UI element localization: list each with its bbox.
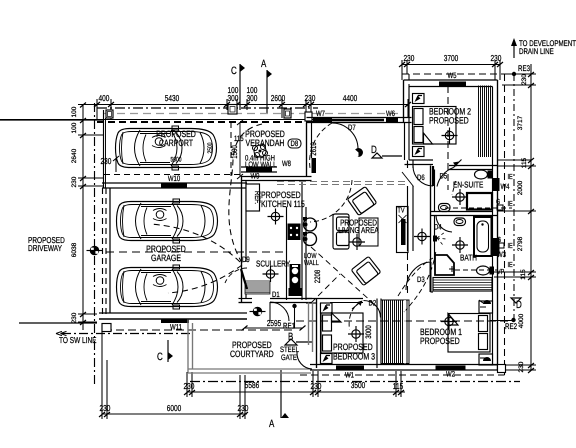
bed3 east wall [376,299,378,369]
svg-text:100: 100 [71,122,78,133]
courtyard south wall [188,368,311,370]
svg-text:4400: 4400 [343,93,358,103]
toilet ensuite [475,170,488,179]
svg-text:DRAIN LINE: DRAIN LINE [519,47,554,56]
dim line bottom y414 [102,413,247,415]
svg-text:EN-SUITE: EN-SUITE [453,180,484,190]
wall light bed3 bottom [321,354,333,364]
corner post SE [498,365,506,373]
sw line arrow [56,331,67,335]
svg-text:D9: D9 [242,255,250,264]
svg-text:W8: W8 [282,159,291,168]
svg-text:115: 115 [234,134,244,143]
bath west wall [430,216,432,293]
svg-text:D1: D1 [272,290,280,299]
door D7 threshold [332,119,384,121]
svg-text:2595: 2595 [267,318,282,328]
entry arc dashed [310,123,332,168]
bedroom1 south wall with window W2 [436,366,466,370]
armchair top [347,186,376,215]
ceiling light hallway [414,229,430,245]
west wall inner face [109,188,111,313]
window W10 [161,184,187,189]
dashed 1500 dim verandah [239,122,241,176]
roof hip dashed living [311,247,373,303]
dim line right vertical [530,64,532,370]
door D7 swing [332,123,358,149]
svg-text:230: 230 [311,381,322,391]
svg-text:115: 115 [521,157,528,168]
en-suite north wall [449,165,498,167]
opening diagonal living/hall [402,172,414,187]
ceiling light bed1 [441,314,457,330]
ensuite west wall [430,166,432,216]
svg-text:3000: 3000 [364,325,373,339]
cupboard hatch bed3/bed1 [381,300,410,364]
svg-text:230: 230 [518,361,525,372]
svg-text:DRIVEWAY: DRIVEWAY [28,243,62,253]
car garage 2 [117,265,218,309]
car path dashed lower [168,265,242,293]
boundary line top-left horizontal [0,119,104,121]
dim line bottom y392 [187,391,405,393]
carport/garage wall [102,182,247,184]
svg-text:W11: W11 [170,323,182,332]
roof dashed bedroom2 left [408,74,410,117]
svg-text:5430: 5430 [165,93,180,103]
ceiling light bath [452,237,468,253]
svg-text:SCULLERY: SCULLERY [256,259,290,269]
sewer dashed courtyard/garage [104,329,294,331]
kitchen counter [286,207,288,300]
coffee table living [359,218,378,246]
svg-text:W3: W3 [497,250,506,259]
svg-text:D5: D5 [440,172,448,181]
window W1 [336,366,364,370]
svg-text:PROPOSED: PROPOSED [333,342,373,352]
svg-text:2610: 2610 [309,142,318,156]
svg-text:TO SW LINE: TO SW LINE [59,335,97,345]
car carport [116,126,217,170]
column [106,110,113,118]
car path dashed upper [229,124,262,263]
svg-text:GARAGE: GARAGE [151,253,181,263]
svg-text:RE2: RE2 [505,322,517,331]
svg-text:A: A [269,418,275,430]
sink bowls [304,218,317,231]
stove [288,224,301,241]
svg-text:3717: 3717 [517,115,524,130]
sewer line RE2 to house [490,320,513,322]
svg-text:W1: W1 [345,371,354,380]
svg-text:230: 230 [100,403,111,413]
west wall upper [306,123,308,177]
column [284,109,291,118]
ceiling light bed2 [442,128,458,144]
svg-text:C: C [231,65,237,77]
basin bath [454,218,466,226]
svg-text:W4: W4 [501,182,510,191]
corner block [102,324,111,332]
svg-text:A: A [261,58,267,70]
svg-text:RE3: RE3 [518,64,530,73]
svg-text:230: 230 [305,93,316,103]
roof dashed bottom [300,374,505,376]
window W11 [161,320,189,324]
low wall [241,166,277,168]
wall light top [413,94,425,104]
sofa [333,214,349,249]
svg-text:400: 400 [99,93,110,103]
svg-text:6038: 6038 [71,242,78,257]
RE2 node [511,318,515,322]
boundary line bottom-left horizontal [19,322,97,324]
carport rear dashed line [104,174,241,176]
nightstand bottom [479,354,493,365]
bedroom2 south wall [409,159,433,161]
toilet bath [477,266,490,275]
steps scullery [245,281,270,294]
svg-text:230: 230 [491,53,502,63]
svg-text:D: D [516,299,522,311]
window W9 [246,168,272,172]
svg-text:PROPOSED: PROPOSED [420,336,460,346]
ceiling light scullery [263,266,279,282]
svg-text:IE: IE [508,260,513,269]
svg-text:2208: 2208 [313,269,322,283]
svg-text:2600: 2600 [271,93,286,103]
roof dashed over carport/verandah [104,113,402,115]
bedroom2 west wall [403,80,405,123]
svg-text:6000: 6000 [167,403,182,413]
shrub [253,145,268,158]
carport west edge [103,110,105,188]
svg-text:115: 115 [393,381,404,391]
svg-text:230: 230 [71,312,78,323]
svg-text:W6: W6 [386,109,395,118]
beacon courtyard [250,307,266,317]
svg-text:COURTYARD: COURTYARD [230,349,274,359]
column [305,112,312,121]
svg-text:W2: W2 [446,370,455,379]
courtyard east wall [308,303,310,346]
ceiling light kitchen [268,209,284,225]
svg-text:3700: 3700 [444,53,459,63]
car path dashed garage1 [150,224,240,262]
entry point dot [355,149,363,157]
steel gate swing [297,352,312,369]
sewer dashed through bedrooms [296,320,513,322]
section A bottom [280,370,282,418]
cupboard hatch bedroom2 [479,86,491,158]
svg-text:D3: D3 [417,275,425,284]
dim 2595 [245,327,303,329]
hatch bath south [433,278,492,292]
svg-text:115: 115 [520,269,527,280]
verandah divider dashed [230,122,232,176]
low wall living/kitchen [305,207,307,300]
hall west wall [407,161,409,169]
ensuite south wall [431,211,493,213]
garage centre dashed [106,251,287,253]
svg-text:D7: D7 [348,123,356,132]
drain arrow to development [513,40,515,58]
svg-text:IE: IE [508,241,513,250]
window W12 [289,288,302,296]
svg-text:230: 230 [238,403,249,413]
wall light bed3 top [321,303,333,313]
svg-text:RE1: RE1 [283,322,295,331]
carport front edge line [0,119,313,121]
svg-text:PROPOSED: PROPOSED [429,116,469,126]
svg-text:2000: 2000 [517,180,524,195]
svg-text:TV: TV [398,206,405,215]
window W6 [386,118,398,123]
fridge REF [246,184,260,211]
svg-text:2798: 2798 [517,236,524,251]
ceiling light ensuite [452,189,468,205]
armchair bottom [351,256,381,285]
south wall [99,312,247,314]
svg-text:4000: 4000 [518,313,525,328]
window W4 [493,178,500,191]
wall light bottom [413,147,425,157]
svg-text:100: 100 [71,106,78,117]
ceiling light bed3 [348,326,364,342]
svg-text:230: 230 [404,53,415,63]
sewer line RE3-RE2 [513,74,515,318]
svg-text:WALL: WALL [304,258,319,267]
west wall garage doors dashed [102,188,104,316]
svg-text:230: 230 [521,74,528,85]
eave dash-dot carport top [97,107,318,109]
shower bath [435,255,454,275]
svg-text:KITCHEN 115: KITCHEN 115 [261,199,305,209]
svg-text:230: 230 [71,176,78,187]
svg-text:IE: IE [508,172,513,181]
ceiling light living [349,234,365,250]
roof dashed bedroom2 top [402,73,505,75]
window W7 [313,118,332,123]
dim line left vertical [82,104,84,330]
bottom lot dash-dot [190,381,520,383]
carport front dashed thick [97,121,313,123]
svg-text:GATE: GATE [281,353,297,362]
washer [290,264,301,288]
bed2 [413,107,457,145]
car garage 1 [117,199,218,243]
svg-text:W7: W7 [316,109,325,118]
svg-text:W10: W10 [168,174,181,183]
roof dashed hall [407,253,409,293]
dim line top [97,104,408,106]
nightstand top [479,301,493,313]
scullery south wall [239,298,253,300]
verandah/living dashed boundary [277,181,406,183]
svg-text:W12: W12 [290,288,301,297]
bed1 [448,314,490,353]
dashed arc D2 [349,302,360,331]
svg-text:300: 300 [228,93,239,103]
svg-text:IE: IE [508,199,513,208]
kitchen north wall [241,176,312,178]
roof ridge dashed bedroom2 [447,86,449,190]
courtyard west wall [187,320,189,374]
TV unit [397,207,409,253]
bed3 [321,313,363,353]
svg-text:D8: D8 [291,139,299,148]
RE3 node [512,72,516,76]
svg-text:230: 230 [184,381,195,391]
svg-text:D6: D6 [417,173,425,182]
east wall house [492,87,494,366]
svg-text:230: 230 [101,156,112,166]
sw line dash-dot [62,333,190,335]
RE1 node [292,304,296,308]
window W3 [493,238,500,256]
house south wall [310,364,498,366]
svg-text:2640: 2640 [71,148,78,163]
svg-text:C: C [157,351,163,363]
column [228,105,237,115]
basin ensuite [439,204,451,212]
bedroom2 north wall [404,79,498,81]
window W8 [312,158,317,173]
west wall kitchen/scullery [241,177,243,303]
svg-text:W5: W5 [448,71,457,80]
beacon driveway [87,246,103,256]
door tag D8 [288,139,301,148]
lot boundary dash-dot vertical [94,103,96,385]
svg-text:300: 300 [247,93,258,103]
D8 swing dashed [310,180,352,222]
living/bed3 wall [306,298,330,300]
bed3 west wall [316,299,318,369]
north wall living [307,117,412,119]
dashed swing arcs hall [398,258,433,296]
bed3 north wall [330,298,363,300]
bedroom1 north wall [410,288,434,290]
roof dashed right [504,74,506,375]
shower ensuite [467,193,492,210]
bathtub [474,217,492,256]
dim line bedroom2 top [402,64,500,66]
svg-text:VP: VP [497,267,504,276]
window W5 [439,82,466,87]
